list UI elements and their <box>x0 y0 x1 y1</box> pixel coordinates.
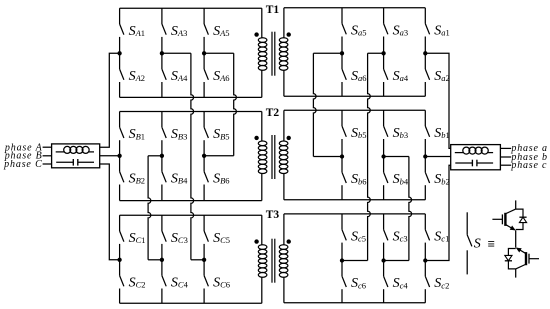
junction node Sa leg midpoint x=425.3 <box>423 51 427 55</box>
top bus group a <box>284 7 425 9</box>
wire A leg2 midpoint stub <box>162 52 191 54</box>
wire phase a: group a leg midpoint to filter <box>425 53 450 148</box>
switch Sb1 <box>425 110 450 156</box>
wire b3 midpoint stub <box>384 156 409 158</box>
wire a5 midpoint stub <box>313 52 342 54</box>
junction node SA leg 3 midpoint <box>202 51 206 55</box>
switch SA5 <box>204 8 229 53</box>
transformer T3 <box>254 209 290 303</box>
switch Sc4 <box>384 261 409 303</box>
wire b5 midpoint stub <box>313 156 342 158</box>
switch SB2 <box>120 156 145 201</box>
switch Sc1 <box>425 214 449 261</box>
svg-text:T3: T3 <box>266 209 280 221</box>
switch Sb3 <box>384 110 409 156</box>
svg-text:≡: ≡ <box>488 237 495 251</box>
switch SB1 <box>120 112 145 156</box>
switch SA3 <box>162 8 187 53</box>
wire phase C: filter to group C leg 1 midpoint <box>100 164 120 260</box>
transformer T2 <box>254 107 290 201</box>
input filter capacitor <box>56 159 94 166</box>
wire A leg3 midpoint stub <box>204 52 234 54</box>
wire B leg3 midpoint stub <box>204 155 234 157</box>
switch SA6 <box>204 53 229 97</box>
junction node Sa leg midpoint x=342 <box>340 51 344 55</box>
switch SC6 <box>204 260 230 304</box>
top bus group b <box>284 109 425 111</box>
legend middle link wire <box>515 230 517 247</box>
switch Sb5 <box>342 110 367 156</box>
bottom bus group a <box>284 95 425 97</box>
bottom bus group B <box>120 200 262 202</box>
junction node SC leg 2 midpoint <box>160 258 164 262</box>
switch SC2 <box>120 260 146 304</box>
junction node Sa leg midpoint x=383.6 <box>381 51 385 55</box>
bottom bus group b <box>284 199 425 201</box>
switch Sc5 <box>342 214 366 261</box>
svg-text:S: S <box>474 237 481 252</box>
junction node Sb leg midpoint x=342 <box>340 154 344 158</box>
junction node Sc leg midpoint x=425.3 <box>423 258 427 262</box>
bottom bus group c <box>284 302 425 304</box>
switch Sa4 <box>384 53 409 96</box>
output filter box <box>451 145 501 170</box>
switch SC5 <box>204 215 230 260</box>
switch Sb4 <box>384 157 409 200</box>
top bus group c <box>284 213 425 215</box>
wire B leg2 midpoint stub <box>148 155 162 157</box>
top bus group C <box>120 214 262 216</box>
junction node SB leg 1 midpoint <box>117 154 121 158</box>
switch Sb2 <box>425 157 450 200</box>
switch SA2 <box>120 53 145 97</box>
bottom bus group A <box>120 96 262 98</box>
wire phase A input stub <box>43 146 52 148</box>
vertical link wire A2-C3 with crossover hops <box>191 53 194 259</box>
top bus group B <box>120 111 262 113</box>
transformer T1 <box>254 4 290 98</box>
input filter inductor <box>56 146 94 153</box>
wire phase c output stub <box>500 164 511 166</box>
top bus group A <box>120 7 262 9</box>
wire a3 midpoint stub <box>368 52 384 54</box>
legend IGBT Q2 with antiparallel diode D2 (lower) <box>505 248 539 278</box>
junction node SC leg 3 midpoint <box>202 258 206 262</box>
input filter box <box>52 144 100 168</box>
wire phase b output stub <box>500 156 511 158</box>
wire phase C input stub <box>43 163 52 165</box>
junction node SA leg 2 midpoint <box>160 51 164 55</box>
switch Sc2 <box>425 261 449 303</box>
junction node Sc leg midpoint x=342 <box>340 258 344 262</box>
wire C leg2 midpoint stub <box>148 259 162 261</box>
switch Sa1 <box>425 8 450 54</box>
junction node SB leg 3 midpoint <box>202 154 206 158</box>
output filter inductor <box>455 147 493 154</box>
switch Sa5 <box>342 8 367 54</box>
switch Sc6 <box>342 261 366 303</box>
switch SA4 <box>162 53 188 97</box>
switch SB6 <box>204 156 229 201</box>
svg-text:phase c: phase c <box>510 160 547 171</box>
vertical link wire B2-C2 with crossover hops <box>148 156 151 260</box>
vertical link wire A3-B3 with crossover hops <box>234 53 237 156</box>
switch SA1 <box>120 8 145 53</box>
bottom bus group C <box>120 302 262 304</box>
wire phase B input stub <box>43 155 52 157</box>
wire c3 midpoint stub <box>384 260 409 262</box>
switch Sa6 <box>342 53 367 96</box>
vertical link wire a5-b5 with crossover hops <box>313 53 316 156</box>
junction node SB leg 2 midpoint <box>160 154 164 158</box>
svg-text:T1: T1 <box>266 4 280 16</box>
vertical link wire b3-c3 with crossover hops <box>409 157 412 261</box>
svg-text:T2: T2 <box>266 107 280 119</box>
wire phase b: group b leg midpoint to filter <box>425 156 450 158</box>
output filter capacitor <box>455 160 493 167</box>
wire C leg3 midpoint stub <box>191 259 204 261</box>
wire phase c: group c leg midpoint to filter <box>425 165 450 260</box>
switch SB3 <box>162 112 187 156</box>
junction node SA leg 1 midpoint <box>117 51 121 55</box>
switch Sa2 <box>425 53 450 96</box>
switch Sa3 <box>384 8 409 54</box>
wire phase A: filter to group A leg 1 midpoint <box>100 53 120 147</box>
wire c5 midpoint stub <box>342 260 368 262</box>
legend IGBT Q1 with antiparallel diode D1 (upper) <box>492 200 526 230</box>
vertical link wire a3-c5 with crossover hops <box>368 53 371 260</box>
junction node Sb leg midpoint x=425.3 <box>423 154 427 158</box>
switch SC4 <box>162 260 189 304</box>
junction node Sb leg midpoint x=383.6 <box>381 154 385 158</box>
wire phase B: filter to group B leg 1 midpoint <box>100 155 120 157</box>
switch SC3 <box>162 215 188 260</box>
switch Sc3 <box>384 214 408 261</box>
switch Sb6 <box>342 157 367 200</box>
switch SC1 <box>120 215 146 260</box>
junction node SC leg 1 midpoint <box>117 258 121 262</box>
switch SB4 <box>162 156 188 201</box>
legend switch symbol S <box>467 212 472 274</box>
junction node Sc leg midpoint x=383.6 <box>381 258 385 262</box>
switch SB5 <box>204 112 229 156</box>
svg-text:phase C: phase C <box>3 159 42 170</box>
wire phase a output stub <box>500 147 511 149</box>
